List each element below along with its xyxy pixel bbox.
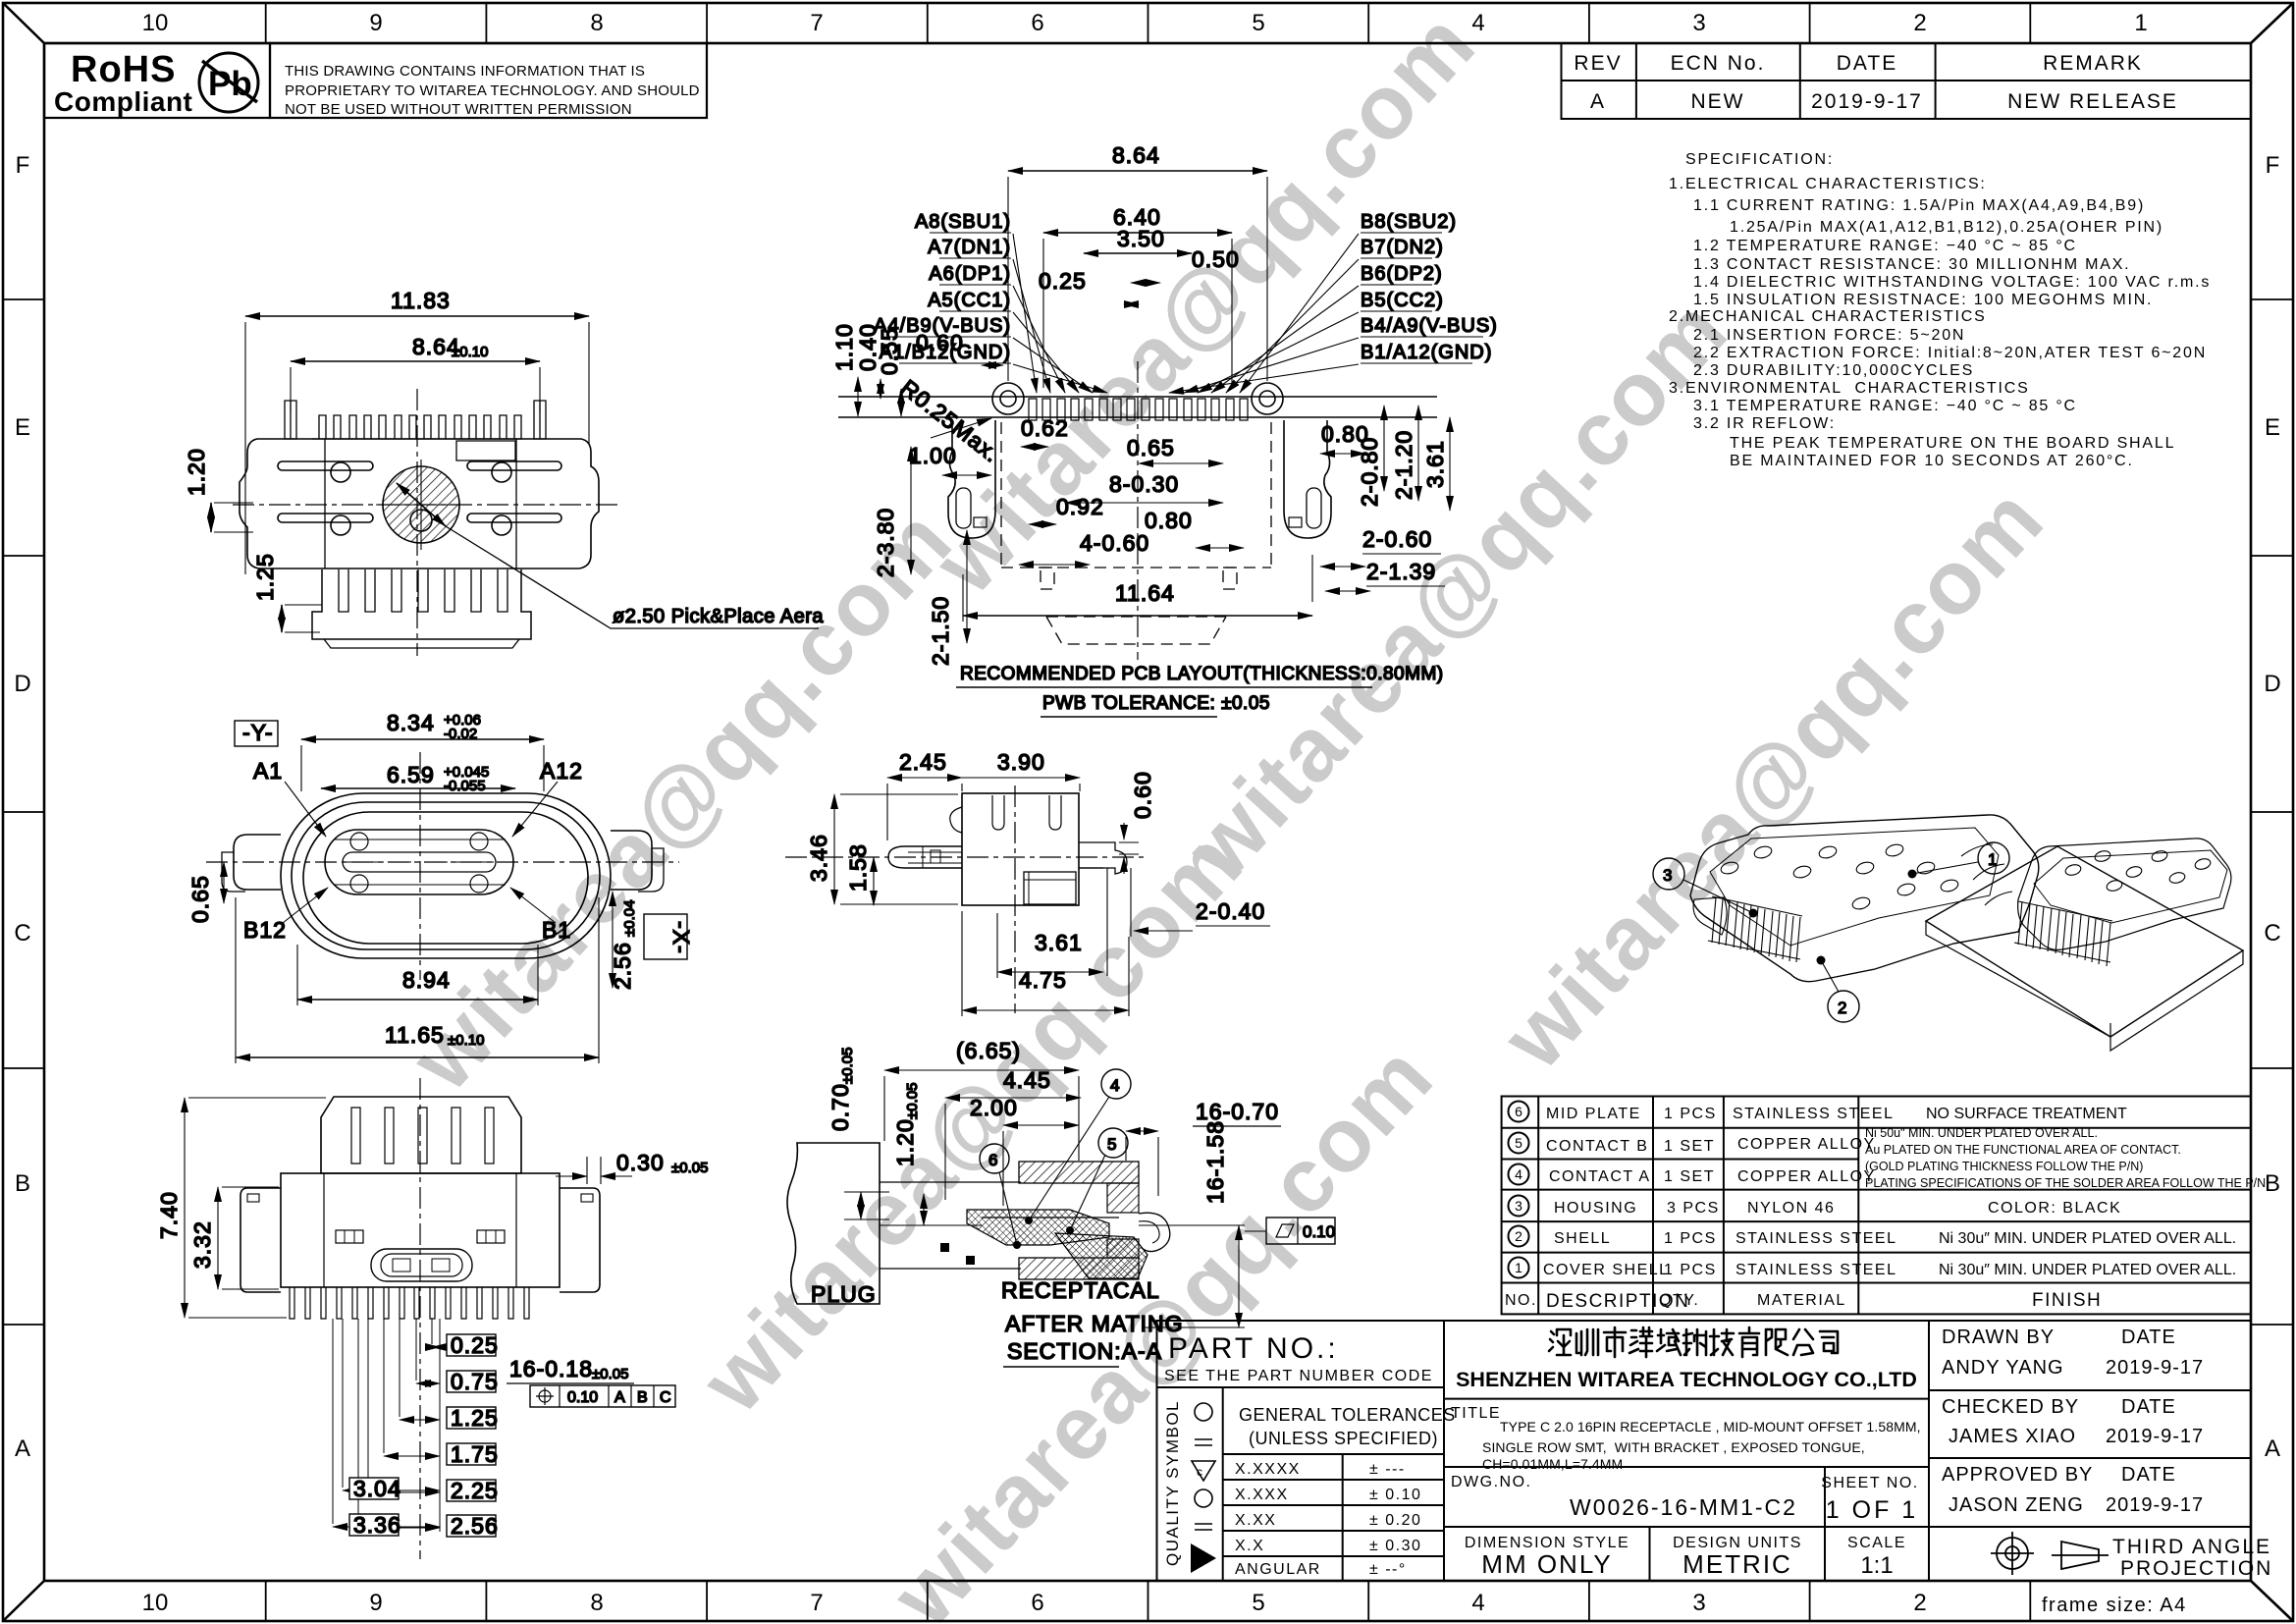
svg-text:BE MAINTAINED FOR 10 SECONDS A: BE MAINTAINED FOR 10 SECONDS AT 260°C. (1730, 453, 2134, 469)
svg-text:SHELL: SHELL (1554, 1230, 1611, 1247)
svg-text:1.4 DIELECTRIC WITHSTANDING VO: 1.4 DIELECTRIC WITHSTANDING VOLTAGE: 100… (1693, 274, 2211, 291)
svg-text:1.25: 1.25 (451, 1405, 499, 1431)
svg-text:2.00: 2.00 (970, 1095, 1018, 1120)
svg-text:(GOLD PLATING THICKNESS FOLLOW: (GOLD PLATING THICKNESS FOLLOW THE P/N) (1865, 1160, 2143, 1173)
svg-text:C: C (660, 1389, 671, 1406)
svg-text:witarea@qq.com: witarea@qq.com (392, 490, 972, 1110)
proprietary notice box (270, 43, 707, 118)
svg-text:JAMES XIAO: JAMES XIAO (1949, 1426, 2076, 1447)
svg-text:± 0.30: ± 0.30 (1369, 1538, 1421, 1554)
svg-text:2: 2 (1838, 999, 1846, 1017)
svg-text:NEW RELEASE: NEW RELEASE (2007, 90, 2178, 113)
view: recommended pcb layout (1137, 361, 1139, 660)
svg-text:4: 4 (1471, 10, 1484, 36)
svg-text:1.20: 1.20 (892, 1118, 918, 1166)
svg-text:3.61: 3.61 (1422, 440, 1448, 488)
svg-text:0.65: 0.65 (1127, 435, 1175, 460)
svg-text:B5(CC2): B5(CC2) (1361, 290, 1444, 311)
svg-text:RoHS: RoHS (71, 49, 176, 90)
svg-text:0.10: 0.10 (1303, 1222, 1335, 1241)
svg-text:COPPER ALLOY: COPPER ALLOY (1737, 1136, 1876, 1153)
svg-text:0.75: 0.75 (451, 1369, 499, 1394)
svg-text:1:1: 1:1 (1860, 1552, 1893, 1579)
svg-text:DATE: DATE (2121, 1396, 2176, 1418)
svg-text:0.30: 0.30 (616, 1150, 665, 1175)
svg-text:3: 3 (1663, 866, 1672, 885)
svg-text:1.10: 1.10 (831, 323, 857, 371)
svg-text:0.70: 0.70 (828, 1083, 853, 1131)
svg-text:1 SET: 1 SET (1664, 1168, 1715, 1185)
svg-text:SECTION:A-A: SECTION:A-A (1007, 1338, 1162, 1364)
company name in Chinese (drawn glyphs) (1549, 1327, 1838, 1357)
svg-text:witarea@qq.com: witarea@qq.com (1167, 280, 1747, 899)
svg-text:1.ELECTRICAL CHARACTERISTICS:: 1.ELECTRICAL CHARACTERISTICS: (1669, 176, 1987, 192)
svg-text:Ni 30u″ MIN. UNDER PLATED OVER: Ni 30u″ MIN. UNDER PLATED OVER ALL. (1939, 1230, 2236, 1247)
svg-text:NO.: NO. (1505, 1292, 1537, 1309)
svg-text:2019-9-17: 2019-9-17 (1811, 90, 1923, 113)
svg-text:4.75: 4.75 (1019, 967, 1067, 993)
svg-text:NEW: NEW (1691, 90, 1745, 113)
svg-text:1: 1 (2134, 10, 2147, 36)
svg-text:16-0.18: 16-0.18 (509, 1356, 593, 1381)
svg-text:REMARK: REMARK (2043, 52, 2143, 75)
svg-text:A5(CC1): A5(CC1) (928, 290, 1011, 311)
svg-text:7: 7 (810, 1590, 823, 1616)
drawing views placeholder (156, 142, 2243, 1559)
svg-text:1.1 CURRENT RATING: 1.5A/Pin M: 1.1 CURRENT RATING: 1.5A/Pin MAX(A4,A9,B… (1693, 197, 2145, 214)
svg-text:8.64: 8.64 (1112, 142, 1160, 168)
svg-text:1.3 CONTACT RESISTANCE: 30 MIL: 1.3 CONTACT RESISTANCE: 30 MILLIONHM MAX… (1693, 256, 2130, 273)
svg-text:9: 9 (369, 10, 382, 36)
svg-text:-Y-: -Y- (242, 720, 274, 745)
svg-text:0.60: 0.60 (1130, 771, 1155, 819)
svg-text:2: 2 (1913, 1590, 1926, 1616)
svg-text:16-1.58: 16-1.58 (1202, 1120, 1228, 1204)
svg-text:DATE: DATE (2121, 1464, 2176, 1486)
svg-text:-0.055: -0.055 (444, 778, 486, 794)
svg-text:4: 4 (1515, 1166, 1522, 1182)
svg-text:STAINLESS STEEL: STAINLESS STEEL (1735, 1262, 1896, 1278)
svg-text:COVER SHELL: COVER SHELL (1543, 1262, 1670, 1278)
svg-text:3: 3 (1692, 1590, 1705, 1616)
svg-text:Ni 50u" MIN. UNDER PLATED OVER: Ni 50u" MIN. UNDER PLATED OVER ALL. (1865, 1126, 2098, 1140)
svg-text:PROJECTION: PROJECTION (2120, 1557, 2272, 1580)
svg-text:0.25: 0.25 (451, 1332, 499, 1358)
svg-text:8.94: 8.94 (402, 967, 451, 993)
svg-text:8: 8 (590, 10, 603, 36)
svg-text:10: 10 (142, 10, 169, 36)
svg-text:NYLON 46: NYLON 46 (1747, 1200, 1835, 1217)
svg-text:2019-9-17: 2019-9-17 (2106, 1357, 2204, 1379)
svg-text:3: 3 (1515, 1198, 1522, 1214)
svg-text:2-0.80: 2-0.80 (1357, 437, 1382, 507)
svg-text:X.X: X.X (1235, 1538, 1264, 1554)
svg-text:11.64: 11.64 (1115, 580, 1175, 606)
svg-text:3.ENVIRONMENTAL CHARACTERISTI: 3.ENVIRONMENTAL CHARACTERISTICS (1669, 380, 2030, 397)
svg-text:0.62: 0.62 (1021, 415, 1069, 441)
svg-text:3.32: 3.32 (189, 1220, 215, 1269)
svg-text:3.1 TEMPERATURE RANGE: −40 °C: 3.1 TEMPERATURE RANGE: −40 °C ~ 85 °C (1693, 398, 2077, 414)
svg-text:SHENZHEN WITAREA TECHNOLOGY CO: SHENZHEN WITAREA TECHNOLOGY CO.,LTD (1456, 1368, 1917, 1391)
svg-text:B12: B12 (243, 917, 287, 943)
svg-text:TITLE: TITLE (1451, 1405, 1501, 1422)
svg-text:PLATING SPECIFICATIONS OF THE: PLATING SPECIFICATIONS OF THE SOLDER ARE… (1865, 1176, 2266, 1190)
svg-text:DATE: DATE (1837, 52, 1897, 75)
svg-text:B4/A9(V-BUS): B4/A9(V-BUS) (1361, 315, 1498, 337)
svg-text:PART NO.:: PART NO.: (1168, 1332, 1339, 1365)
svg-text:D: D (14, 671, 30, 697)
svg-text:0.65: 0.65 (187, 875, 213, 923)
svg-text:± ---: ± --- (1369, 1461, 1406, 1478)
svg-text:-X-: -X- (668, 921, 694, 954)
svg-text:1: 1 (1988, 850, 1997, 869)
svg-text:c: c (1197, 1465, 1202, 1479)
svg-text:B1/A12(GND): B1/A12(GND) (1361, 342, 1492, 363)
svg-text:4.45: 4.45 (1003, 1067, 1051, 1093)
svg-text:COPPER ALLOY: COPPER ALLOY (1737, 1168, 1876, 1185)
svg-text:B8(SBU2): B8(SBU2) (1361, 211, 1457, 233)
svg-text:2-1.50: 2-1.50 (928, 596, 953, 666)
svg-text:RECOMMENDED PCB LAYOUT(THICKNE: RECOMMENDED PCB LAYOUT(THICKNESS:0.80MM) (960, 664, 1444, 684)
view: 3D receptacle with cover shell (1690, 815, 2039, 982)
svg-text:THIS DRAWING CONTAINS INFORMAT: THIS DRAWING CONTAINS INFORMATION THAT I… (285, 63, 645, 80)
svg-text:HOUSING: HOUSING (1554, 1200, 1637, 1217)
svg-text:2-1.20: 2-1.20 (1391, 430, 1416, 500)
svg-text:5: 5 (1107, 1135, 1116, 1154)
specification text block (1669, 151, 2211, 469)
revision table REV/ECN/DATE/REMARK (1562, 43, 2252, 119)
svg-text:A: A (2265, 1435, 2280, 1462)
svg-text:APPROVED BY: APPROVED BY (1942, 1464, 2093, 1486)
svg-text:2.56: 2.56 (610, 942, 635, 990)
svg-text:3.50: 3.50 (1117, 226, 1165, 251)
svg-text:2019-9-17: 2019-9-17 (2106, 1426, 2204, 1447)
svg-text:1.25A/Pin MAX(A1,A12,B1,B12),0: 1.25A/Pin MAX(A1,A12,B1,B12),0.25A(OHER … (1730, 219, 2163, 236)
svg-text:4: 4 (1110, 1076, 1119, 1095)
svg-text:Compliant: Compliant (54, 86, 192, 117)
svg-text:TYPE C 2.0 16PIN RECEPTACLE ,: TYPE C 2.0 16PIN RECEPTACLE , MID-MOUNT … (1500, 1419, 1921, 1435)
svg-text:QTY.: QTY. (1659, 1292, 1699, 1309)
svg-text:E: E (2265, 414, 2280, 441)
svg-text:1 OF 1: 1 OF 1 (1826, 1496, 1918, 1524)
svg-text:A: A (614, 1389, 625, 1406)
svg-text:0.60: 0.60 (916, 330, 964, 355)
svg-text:PROPRIETARY TO WITAREA TECHNOL: PROPRIETARY TO WITAREA TECHNOLOGY. AND S… (285, 82, 700, 99)
svg-text:METRIC: METRIC (1682, 1549, 1792, 1579)
svg-text:X.XXXX: X.XXXX (1235, 1461, 1301, 1478)
view: after-mating bottom view (419, 1078, 421, 1559)
svg-text:±0.05: ±0.05 (592, 1366, 628, 1382)
svg-text:CONTACT A: CONTACT A (1549, 1168, 1651, 1185)
svg-text:3 PCS: 3 PCS (1667, 1200, 1720, 1217)
svg-text:B1: B1 (542, 917, 571, 943)
svg-text:CONTACT B: CONTACT B (1546, 1138, 1648, 1155)
svg-text:A: A (1590, 90, 1606, 113)
svg-text:A7(DN1): A7(DN1) (928, 237, 1011, 258)
svg-text:C: C (14, 920, 30, 947)
svg-text:3.61: 3.61 (1035, 930, 1083, 955)
svg-text:GENERAL TOLERANCES: GENERAL TOLERANCES (1239, 1405, 1456, 1425)
svg-text:±0.05: ±0.05 (671, 1160, 708, 1176)
svg-text:QUALITY SYMBOL: QUALITY SYMBOL (1163, 1400, 1182, 1566)
svg-text:5: 5 (1252, 1590, 1264, 1616)
svg-text:1.58: 1.58 (845, 843, 871, 892)
svg-text:7: 7 (810, 10, 823, 36)
svg-text:SCALE: SCALE (1847, 1535, 1906, 1551)
svg-text:0.55: 0.55 (877, 327, 902, 375)
view: side section view (785, 785, 1144, 1013)
view: connector top view (233, 389, 620, 656)
svg-text:JASON ZENG: JASON ZENG (1949, 1494, 2084, 1516)
svg-text:W0026-16-MM1-C2: W0026-16-MM1-C2 (1570, 1494, 1797, 1520)
svg-text:0.80: 0.80 (1145, 508, 1193, 533)
svg-text:± 0.20: ± 0.20 (1369, 1512, 1421, 1529)
svg-text:SPECIFICATION:: SPECIFICATION: (1685, 151, 1834, 168)
svg-text:3.90: 3.90 (997, 749, 1045, 775)
svg-text:STAINLESS STEEL: STAINLESS STEEL (1733, 1106, 1894, 1122)
svg-text:X.XX: X.XX (1235, 1512, 1276, 1529)
svg-text:11.65: 11.65 (385, 1022, 445, 1048)
view: PLUG + RECEPTACAL section A-A (787, 1143, 880, 1304)
svg-text:MID PLATE: MID PLATE (1546, 1106, 1641, 1122)
svg-text:ANGULAR: ANGULAR (1235, 1561, 1321, 1578)
svg-text:3.46: 3.46 (806, 834, 831, 882)
svg-text:1 PCS: 1 PCS (1664, 1230, 1717, 1247)
svg-text:2.25: 2.25 (451, 1478, 499, 1503)
svg-text:F: F (2266, 152, 2280, 179)
view: section A-A after mating (787, 1038, 1335, 1367)
svg-text:1.5 INSULATION RESISTNACE: 100: 1.5 INSULATION RESISTNACE: 100 MEGOHMS M… (1693, 292, 2153, 308)
svg-text:A8(SBU1): A8(SBU1) (915, 211, 1011, 233)
svg-text:0.10: 0.10 (567, 1389, 598, 1406)
svg-text:0.25: 0.25 (1039, 268, 1087, 294)
svg-text:10: 10 (142, 1590, 169, 1616)
svg-text:THIRD ANGLE: THIRD ANGLE (2112, 1536, 2271, 1558)
svg-text:±0.05: ±0.05 (839, 1048, 856, 1084)
svg-text:7.40: 7.40 (156, 1191, 182, 1239)
svg-text:MATERIAL: MATERIAL (1757, 1292, 1846, 1309)
svg-text:CH=0.01MM,L=7.4MM: CH=0.01MM,L=7.4MM (1482, 1456, 1623, 1472)
svg-text:B6(DP2): B6(DP2) (1361, 263, 1443, 285)
svg-text:8.34: 8.34 (387, 710, 435, 735)
svg-text:NOT BE USED WITHOUT WRITTEN PE: NOT BE USED WITHOUT WRITTEN PERMISSION (285, 101, 632, 118)
svg-text:(6.65): (6.65) (956, 1038, 1021, 1063)
svg-text:DRAWN BY: DRAWN BY (1942, 1326, 2055, 1348)
svg-text:9: 9 (369, 1590, 382, 1616)
svg-text:2.45: 2.45 (899, 749, 947, 775)
svg-text:8-0.30: 8-0.30 (1109, 471, 1179, 497)
svg-text:2.56: 2.56 (451, 1513, 499, 1539)
svg-text:THE PEAK TEMPERATURE ON THE BO: THE PEAK TEMPERATURE ON THE BOARD SHALL (1730, 435, 2175, 452)
svg-text:(UNLESS SPECIFIED): (UNLESS SPECIFIED) (1249, 1429, 1438, 1448)
svg-text:3.04: 3.04 (353, 1476, 401, 1501)
svg-text:±0.10: ±0.10 (452, 344, 488, 360)
svg-text:B: B (15, 1170, 30, 1197)
svg-text:1.20: 1.20 (184, 448, 209, 496)
svg-text:B7(DN2): B7(DN2) (1361, 237, 1444, 258)
svg-text:6: 6 (1031, 10, 1043, 36)
svg-text:C: C (2264, 920, 2280, 947)
view: 3D receptacle mounted on pcb (1926, 846, 2243, 1037)
svg-text:2019-9-17: 2019-9-17 (2106, 1494, 2204, 1516)
view: top view of connector with pick&place circle (184, 288, 824, 656)
svg-text:SINGLE ROW SMT, WITH BRACKET: SINGLE ROW SMT, WITH BRACKET , EXPOSED T… (1482, 1439, 1865, 1455)
svg-text:0.92: 0.92 (1056, 494, 1104, 519)
svg-text:± --°: ± --° (1369, 1561, 1407, 1578)
svg-text:±0.10: ±0.10 (448, 1032, 484, 1049)
svg-text:DATE: DATE (2121, 1326, 2176, 1348)
svg-text:4: 4 (1471, 1590, 1484, 1616)
svg-text:2-1.39: 2-1.39 (1366, 559, 1436, 584)
svg-text:2-0.60: 2-0.60 (1362, 526, 1432, 552)
svg-text:D: D (2264, 671, 2280, 697)
svg-text:E: E (15, 414, 30, 441)
svg-text:1 SET: 1 SET (1664, 1138, 1715, 1155)
svg-text:Au PLATED ON THE FUNCTIONAL AR: Au PLATED ON THE FUNCTIONAL AREA OF CONT… (1865, 1143, 2181, 1157)
svg-text:4-0.60: 4-0.60 (1080, 530, 1149, 556)
svg-text:Ni 30u″ MIN. UNDER PLATED OVER: Ni 30u″ MIN. UNDER PLATED OVER ALL. (1939, 1262, 2236, 1278)
svg-text:0.50: 0.50 (1192, 246, 1240, 272)
svg-text:1.2 TEMPERATURE RANGE: −40 °C: 1.2 TEMPERATURE RANGE: −40 °C ~ 85 °C (1693, 238, 2077, 254)
svg-text:B: B (637, 1389, 648, 1406)
svg-text:± 0.10: ± 0.10 (1369, 1487, 1421, 1503)
bill of materials table (1502, 1097, 2267, 1315)
watermark: witarea@qq.com repeated gray diagonal text (392, 0, 2063, 1624)
svg-text:6: 6 (988, 1151, 997, 1169)
view: receptacle front view (206, 752, 679, 980)
svg-text:1 PCS: 1 PCS (1664, 1106, 1717, 1122)
svg-text:6: 6 (1515, 1104, 1522, 1119)
title block (1157, 1321, 2273, 1581)
view: 3D isometric views (1653, 815, 2243, 1051)
svg-text:A1: A1 (253, 758, 283, 784)
svg-text:1: 1 (1515, 1260, 1522, 1275)
RoHS Compliant Pb-free logo box (44, 43, 270, 118)
svg-text:A: A (15, 1435, 30, 1462)
svg-text:5: 5 (1252, 10, 1264, 36)
view: bottom view with pin dims (156, 1078, 708, 1559)
svg-text:PWB TOLERANCE: ±0.05: PWB TOLERANCE: ±0.05 (1042, 693, 1270, 714)
svg-text:ANDY YANG: ANDY YANG (1942, 1357, 2064, 1379)
svg-text:8: 8 (590, 1590, 603, 1616)
svg-text:A12: A12 (540, 758, 583, 784)
svg-text:2: 2 (1515, 1228, 1522, 1244)
svg-text:SEE THE PART NUMBER CODE: SEE THE PART NUMBER CODE (1164, 1368, 1433, 1384)
svg-text:2-0.40: 2-0.40 (1196, 898, 1265, 924)
svg-text:±0.05: ±0.05 (904, 1083, 921, 1119)
svg-text:SHEET NO.: SHEET NO. (1821, 1475, 1918, 1491)
svg-text:1.75: 1.75 (451, 1441, 499, 1467)
view: receptacle front view (187, 710, 694, 1063)
svg-text:2.2 EXTRACTION FORCE: Initial:: 2.2 EXTRACTION FORCE: Initial:8~20N,ATER… (1693, 345, 2207, 361)
svg-text:NO SURFACE TREATMENT: NO SURFACE TREATMENT (1926, 1106, 2127, 1122)
svg-text:witarea@qq.com: witarea@qq.com (1483, 468, 2063, 1088)
svg-text:11.83: 11.83 (391, 288, 451, 313)
svg-text:2: 2 (1913, 10, 1926, 36)
svg-text:1.25: 1.25 (252, 553, 278, 601)
svg-text:REV: REV (1574, 52, 1622, 75)
svg-text:RECEPTACAL: RECEPTACAL (1001, 1277, 1160, 1303)
svg-text:CHECKED BY: CHECKED BY (1942, 1396, 2079, 1418)
svg-text:6: 6 (1031, 1590, 1043, 1616)
svg-text:F: F (16, 152, 30, 179)
svg-text:X.XXX: X.XXX (1235, 1487, 1289, 1503)
svg-text:2.1 INSERTION FORCE: 5~20N: 2.1 INSERTION FORCE: 5~20N (1693, 327, 1965, 344)
svg-text:B: B (2265, 1170, 2280, 1197)
svg-text:AFTER MATING: AFTER MATING (1005, 1311, 1184, 1336)
svg-text:5: 5 (1515, 1135, 1522, 1151)
svg-text:2.MECHANICAL CHARACTERISTICS: 2.MECHANICAL CHARACTERISTICS (1669, 308, 1987, 325)
svg-text:3.36: 3.36 (353, 1512, 401, 1538)
svg-text:MM ONLY: MM ONLY (1481, 1549, 1612, 1579)
svg-text:FINISH: FINISH (2032, 1290, 2102, 1311)
svg-text:1 PCS: 1 PCS (1664, 1262, 1717, 1278)
svg-text:COLOR: BLACK: COLOR: BLACK (1988, 1200, 2121, 1217)
svg-text:ECN No.: ECN No. (1671, 52, 1766, 75)
svg-text:2.3 DURABILITY:10,000CYCLES: 2.3 DURABILITY:10,000CYCLES (1693, 362, 1974, 379)
view: recommended PCB layout (831, 142, 1498, 717)
svg-text:ø2.50 Pick&Place Aera: ø2.50 Pick&Place Aera (613, 606, 824, 627)
svg-text:A6(DP1): A6(DP1) (929, 263, 1011, 285)
svg-text:3.2 IR REFLOW:: 3.2 IR REFLOW: (1693, 415, 1836, 432)
svg-text:DWG.NO.: DWG.NO. (1451, 1474, 1532, 1490)
svg-text:3: 3 (1692, 10, 1705, 36)
svg-text:6.59: 6.59 (387, 762, 435, 787)
svg-text:PLUG: PLUG (811, 1281, 877, 1307)
view: side view (785, 749, 1270, 1016)
svg-text:frame size: A4: frame size: A4 (2042, 1595, 2187, 1616)
svg-text:2-3.80: 2-3.80 (873, 508, 898, 577)
svg-text:±0.04: ±0.04 (621, 900, 638, 937)
svg-text:STAINLESS STEEL: STAINLESS STEEL (1735, 1230, 1896, 1247)
